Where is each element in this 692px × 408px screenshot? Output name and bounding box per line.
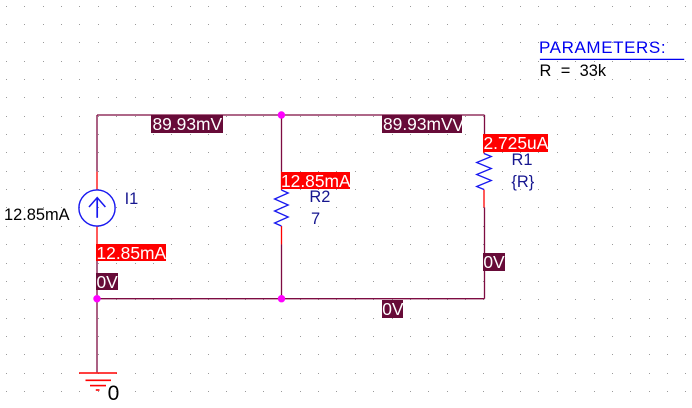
resistor R2 body (zigzag) [275,190,289,226]
parameters title underline [540,58,684,60]
wire middle upper (top wire to R2) [281,115,283,172]
pin R1 top [483,134,485,153]
pin R1 bottom [483,190,485,208]
junction node at bottom left [93,295,100,302]
bias current label 12.85mA (R2 branch) [281,172,351,190]
current source I1 (circle with up arrow) [79,190,115,226]
wire left lower (I1 bottom to bottom wire) [96,244,98,299]
parameters title [539,38,666,57]
bias voltage label 0V (bottom net) [382,300,404,318]
wire top (node between I1, R2, R1) [97,114,485,116]
bias voltage label 0V (right node) [483,253,506,271]
reference designator R2 [309,188,330,206]
value label 7 of R2 [311,210,320,228]
wire right lower (R1 to bottom wire) [484,207,486,298]
wire bottom (ground net) [97,298,485,300]
wire ground stem [96,299,98,373]
junction node at bottom middle [278,295,285,302]
resistor R1 body (zigzag) [477,154,492,190]
wire right upper (top wire corner down to R1) [484,115,486,134]
pin R2 top [281,172,283,190]
reference designator I1 [125,190,139,208]
pin I1 bottom [96,226,98,244]
parameter value R = 33k [540,62,607,80]
pin R2 bottom [281,226,283,244]
bias voltage label 89.93mV (top left node) [151,115,223,133]
reference designator R1 [512,151,533,169]
value label 12.85mA of I1 [4,206,70,224]
bias current label 2.725uA (R1 branch) [483,134,548,152]
junction node at top middle [278,111,285,118]
pin I1 top [96,172,98,191]
ground net name 0 [108,382,120,405]
bias voltage label 0V (left bottom node) [96,273,118,291]
ground symbol 0 [79,373,117,390]
bias current label 12.85mA (I1 branch) [96,244,166,262]
value label {R} of R1 [511,173,534,191]
wire left upper (I1 top to top wire) [96,115,98,172]
wire middle lower (R2 to bottom wire) [281,244,283,298]
bias voltage label 89.93mVV (top right node) [382,115,463,133]
